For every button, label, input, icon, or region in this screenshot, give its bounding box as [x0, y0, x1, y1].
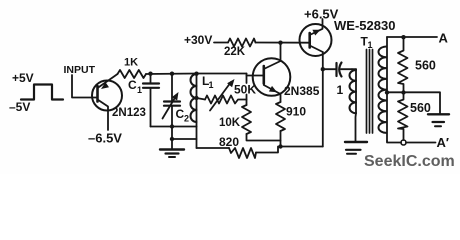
transistor Q1 emitter arrow (PNP, points into base) — [101, 82, 109, 89]
transformer T1 secondary winding — [386, 37, 388, 141]
wire node column x=246.5 lower — [246, 95, 248, 106]
resistor R5 820 — [229, 148, 256, 158]
svg-text:560: 560 — [415, 59, 436, 73]
transistor Q1 base bar — [96, 86, 99, 102]
svg-text:+5V: +5V — [12, 71, 34, 85]
node dot emitter return — [278, 144, 282, 148]
svg-text:WE-52830: WE-52830 — [334, 18, 395, 33]
transistor Q1 emitter lead — [98, 74, 118, 88]
node dot ground tee — [170, 137, 174, 141]
input terminal stub — [72, 75, 98, 98]
capacitor C2 (variable) — [171, 74, 173, 102]
wire top rail — [146, 73, 247, 76]
resistor R7 560 upper — [398, 37, 408, 92]
node dot 560 top — [401, 35, 405, 39]
svg-text:INPUT: INPUT — [64, 64, 96, 76]
transistor Q2 base bar — [262, 66, 265, 84]
svg-text:1K: 1K — [124, 57, 138, 69]
ground G2 under primary — [345, 141, 367, 143]
svg-text:10K: 10K — [219, 117, 241, 129]
wire 22K to node — [256, 42, 310, 44]
node dot secondary center tap — [385, 90, 389, 94]
inductor L1 (winding line + bumps) — [196, 74, 198, 127]
transistor Q3 emitter arrow — [312, 30, 320, 36]
node dot C2 tap — [170, 72, 174, 76]
svg-text:A: A — [439, 31, 449, 46]
svg-text:50K: 50K — [234, 83, 256, 97]
resistor R6 910 — [276, 102, 285, 131]
svg-text:820: 820 — [219, 135, 239, 149]
node dot bus — [170, 124, 174, 128]
resistor R2 22K — [228, 39, 256, 47]
primary bottom stem — [355, 113, 358, 141]
svg-text:2N123: 2N123 — [112, 107, 146, 119]
transistor Q2 base wire — [247, 75, 264, 77]
capacitor C2 arrow — [163, 96, 177, 119]
wire bottom rail left — [197, 147, 230, 149]
node dot L1 top — [194, 72, 198, 76]
coupling capacitor 1 — [323, 68, 337, 70]
transformer T1 primary winding — [355, 69, 357, 113]
resistor R8 560 lower — [398, 93, 408, 141]
ground bus under tank — [151, 126, 197, 128]
svg-text:2: 2 — [184, 114, 189, 124]
wire 50K from L1 tap — [197, 98, 206, 100]
transistor Q1 2N123 circle — [92, 81, 122, 111]
wire bottom rail mid — [256, 147, 323, 153]
svg-text:+30V: +30V — [184, 33, 212, 47]
terminal ring A' junction — [401, 140, 406, 145]
svg-text:1: 1 — [368, 40, 373, 50]
node dot collector junction — [278, 41, 282, 45]
ground G3 right — [428, 113, 449, 115]
ground stem — [171, 127, 173, 149]
wire 910 bottom — [280, 131, 282, 147]
wire 10K bottom to emitter column — [247, 134, 281, 141]
node dot L1 tap — [194, 96, 198, 100]
svg-text:22K: 22K — [224, 46, 246, 58]
transistor Q2 collector lead — [264, 43, 281, 69]
transistor Q3 collector lead (down) — [310, 46, 323, 53]
svg-text:2N385: 2N385 — [284, 84, 320, 98]
transistor Q3 WE-52830 circle — [300, 24, 332, 56]
wire node column x=246.5 upper — [246, 74, 248, 84]
wire tee to rail corner — [172, 138, 197, 140]
ground G1 — [160, 148, 184, 150]
input pulse waveform — [21, 85, 63, 100]
svg-text:C: C — [128, 78, 137, 92]
node dot cap junction — [321, 67, 325, 71]
transistor Q2 emitter arrow (NPN out) — [269, 86, 277, 92]
transistor Q3 base bar — [308, 33, 311, 48]
svg-text:560: 560 — [410, 101, 431, 115]
resistor R1 1K — [118, 70, 147, 78]
transistor Q2 emitter lead — [264, 85, 281, 102]
svg-text:–6.5V: –6.5V — [88, 131, 122, 146]
transistor Q2 2N385 circle — [253, 58, 291, 96]
capacitor C1 — [150, 74, 152, 84]
node dot mid rail — [401, 90, 405, 94]
wire top rail to A — [387, 36, 437, 38]
svg-text:910: 910 — [286, 105, 306, 119]
node dot C1 tap — [148, 72, 152, 76]
svg-text:SeekIC.com: SeekIC.com — [364, 153, 455, 170]
svg-text:1: 1 — [209, 80, 214, 90]
svg-text:–5V: –5V — [9, 100, 30, 114]
wire mid rail — [387, 92, 440, 113]
wire L1 bottom to bottom rail — [196, 127, 198, 149]
transistor Q1 collector lead — [98, 100, 109, 131]
resistor R3 50K (variable) — [205, 96, 247, 104]
svg-text:1: 1 — [337, 83, 344, 97]
wire emitter column down to rail — [322, 52, 324, 147]
svg-text:A′: A′ — [437, 135, 450, 150]
transistor Q3 emitter lead (up) — [310, 19, 323, 35]
resistor R4 10K — [242, 105, 251, 134]
transformer T1 core — [366, 50, 368, 134]
+30V feed wire — [214, 42, 228, 44]
wire bottom rail to A' — [387, 141, 401, 143]
potentiometer arrow 50K — [210, 82, 231, 111]
svg-text:1: 1 — [137, 85, 142, 95]
